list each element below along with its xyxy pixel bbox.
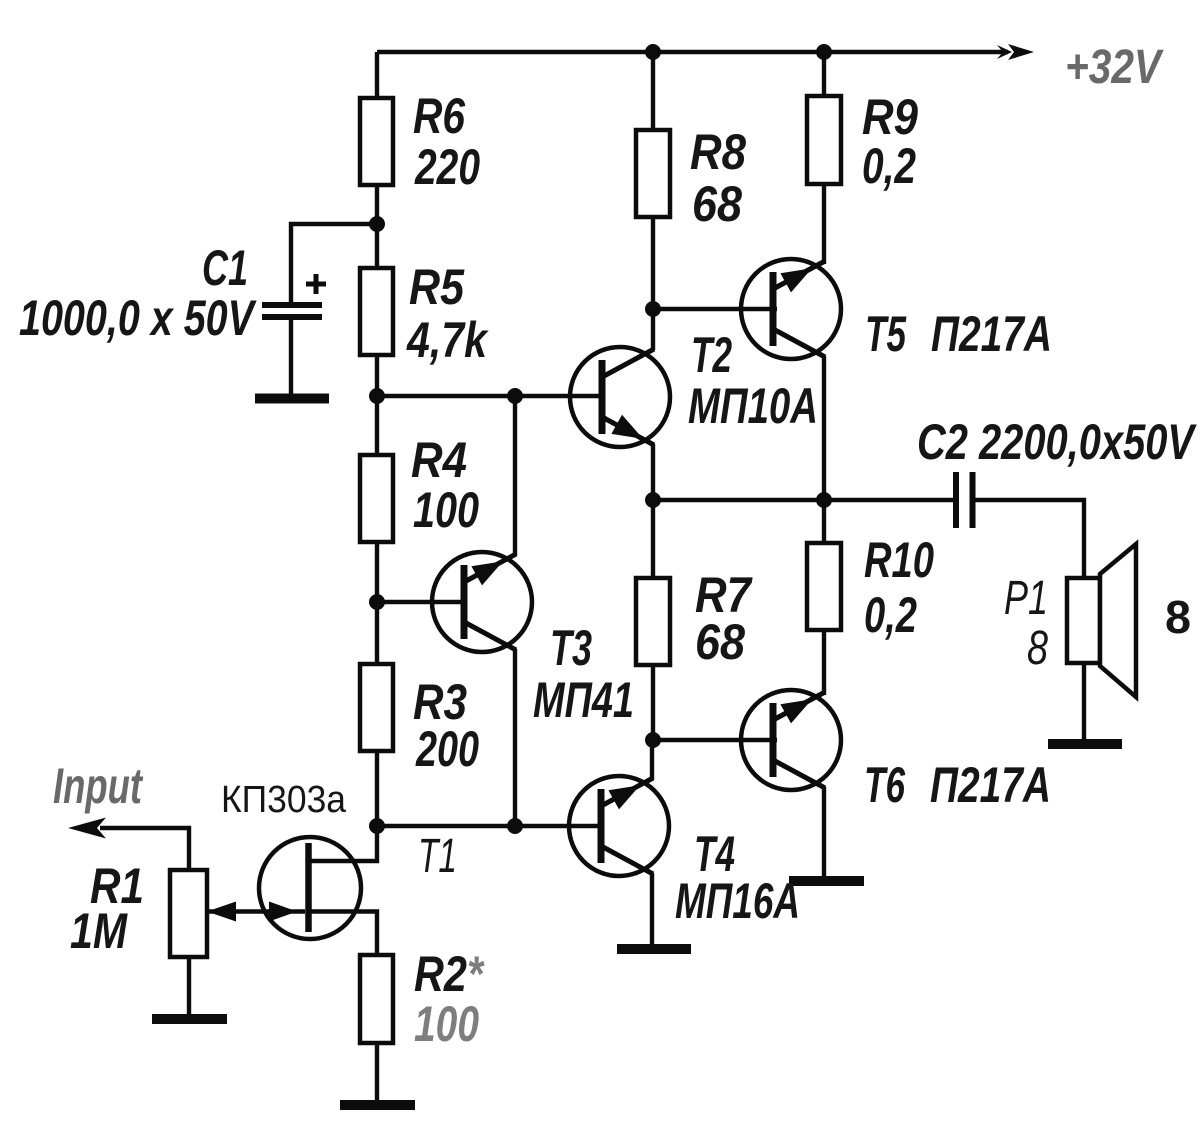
resistor R6 [360, 98, 393, 185]
wire R7 top lead [651, 500, 655, 578]
wire T5 base row [653, 307, 777, 311]
wire R8 bottom / T2 collector [651, 217, 655, 350]
wire T3 base lead [377, 600, 465, 604]
wire R7 bottom lead [651, 665, 655, 740]
node junction R3/T1 drain [369, 818, 385, 834]
svg-text:4,7k: 4,7k [406, 312, 489, 368]
svg-text:П217А: П217А [931, 306, 1052, 362]
wire R3 top lead [375, 602, 379, 664]
transistor T6 [741, 690, 841, 790]
resistor R7 [636, 578, 670, 665]
node junction output left [645, 492, 661, 508]
svg-text:200: 200 [415, 721, 479, 777]
svg-text:8: 8 [1027, 622, 1048, 675]
wire input lead [100, 828, 189, 870]
wire R8 top lead [651, 52, 655, 130]
wire T4 emitter lead [650, 873, 654, 945]
transistor T4 [569, 776, 669, 876]
wire C1 bottom lead [289, 320, 293, 394]
speaker P1 [1067, 544, 1136, 697]
node junction output right [816, 492, 832, 508]
svg-text:0,2: 0,2 [862, 138, 916, 194]
wire C1 branch [291, 224, 377, 302]
svg-text:1000,0 x 50V: 1000,0 x 50V [19, 290, 257, 346]
wire R4 bottom lead [375, 542, 379, 602]
node junction rail R8 [645, 44, 661, 60]
wire speaker bottom lead [1082, 663, 1086, 740]
wire C2 to speaker [975, 500, 1084, 578]
ground T6 [789, 876, 864, 886]
svg-text:R5: R5 [409, 259, 465, 315]
ground speaker [1048, 739, 1122, 749]
svg-text:КП303а: КП303а [221, 779, 347, 821]
wire T6 collector lead [822, 787, 826, 877]
svg-text:T1: T1 [418, 830, 457, 883]
node junction T3 emitter [507, 818, 523, 834]
wire T6 base row [653, 738, 777, 742]
wire R5 top lead [375, 224, 379, 268]
svg-text:П217А: П217А [930, 757, 1051, 813]
resistor R2 [360, 955, 393, 1043]
wire R4 top lead [375, 396, 379, 455]
svg-text:МП16А: МП16А [675, 873, 800, 929]
transistor T3 [432, 552, 532, 652]
capacitor C2 [956, 472, 973, 528]
node C1 plus sign [306, 274, 326, 294]
resistor R1 potentiometer [170, 870, 207, 957]
resistor R9 [807, 96, 841, 184]
wire T2 emitter lead [651, 444, 655, 500]
svg-text:68: 68 [692, 176, 742, 232]
svg-text:P1: P1 [1004, 572, 1048, 625]
node +32V arrow [997, 44, 1034, 60]
node R1 wiper arrow [207, 902, 236, 922]
wire output row [653, 498, 953, 502]
svg-text:1M: 1M [70, 903, 128, 959]
wire R3 bottom lead [375, 751, 379, 826]
node junction T3 collector [507, 388, 523, 404]
svg-text:R4: R4 [411, 432, 467, 488]
node junction T5 base tap [645, 301, 661, 317]
svg-text:100: 100 [413, 482, 479, 538]
resistor R5 [360, 268, 393, 355]
svg-text:T6: T6 [864, 757, 906, 813]
wire T4 collector lead [650, 740, 654, 780]
svg-text:0,2: 0,2 [864, 587, 917, 643]
svg-text:МП10А: МП10А [688, 378, 818, 434]
svg-text:68: 68 [695, 614, 745, 670]
svg-text:+32V: +32V [1065, 41, 1164, 94]
node junction R6/C1/R5 [369, 216, 385, 232]
node junction rail R9 [816, 44, 832, 60]
transistor T2 [570, 347, 670, 447]
node junction R7/T4/T6 base [645, 732, 661, 748]
svg-text:R10: R10 [864, 532, 934, 588]
svg-text:Input: Input [53, 758, 144, 814]
svg-text:T2: T2 [691, 327, 732, 383]
svg-text:R9: R9 [862, 89, 918, 145]
wire R6 bottom lead [375, 185, 379, 224]
svg-text:100: 100 [414, 996, 479, 1052]
wire R6 top lead [375, 52, 379, 98]
svg-text:T3: T3 [550, 620, 592, 676]
ground R2 [340, 1100, 415, 1110]
wire +32V top rail [377, 50, 1008, 54]
wire R10 top lead [822, 500, 826, 543]
resistor R4 [360, 455, 393, 542]
node input arrow [68, 818, 106, 839]
ground T4 [617, 944, 691, 954]
resistor R8 [636, 130, 670, 217]
wire R9 bottom / T5 emitter [822, 184, 826, 264]
wire R1 bottom lead [187, 957, 191, 1015]
resistor R3 [360, 664, 393, 751]
wire R10 bottom / T6 emitter [822, 630, 826, 695]
transistor T5 [741, 259, 841, 359]
wire R5 bottom lead [375, 355, 379, 396]
wire R9 top lead [822, 52, 826, 96]
wire R2 bottom lead [375, 1043, 379, 1101]
capacitor C1 [262, 305, 322, 317]
ground C1 [255, 394, 329, 404]
wire T3 emitter lead [513, 649, 517, 826]
wire T2 base row [377, 394, 604, 398]
svg-text:C1: C1 [202, 240, 248, 296]
svg-text:R6: R6 [413, 88, 466, 144]
node junction R5/R4 [369, 388, 385, 404]
ground R1 [152, 1014, 227, 1024]
wire T4 base row [377, 824, 601, 828]
svg-text:220: 220 [414, 139, 480, 195]
resistor R10 [807, 543, 841, 630]
node junction R4/R3/T3 base [369, 594, 385, 610]
svg-text:C2 2200,0x50V: C2 2200,0x50V [917, 414, 1197, 470]
transistor T1 [207, 826, 377, 955]
wire T5 collector lead [822, 356, 826, 500]
wire T3 collector lead [513, 396, 517, 556]
svg-text:T5: T5 [865, 306, 907, 362]
svg-text:8: 8 [1165, 591, 1191, 643]
svg-text:R2*: R2* [414, 946, 485, 1002]
svg-text:R8: R8 [690, 124, 746, 180]
svg-text:МП41: МП41 [533, 672, 634, 728]
